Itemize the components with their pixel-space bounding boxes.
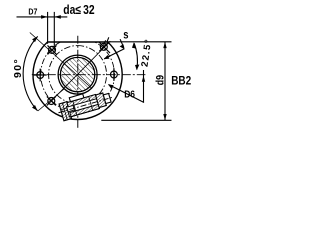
horizontal centerline [32,74,146,76]
vertical leg with up arrow at centerline [143,70,145,102]
flange outline: circle r44.6 with top flat at y=42 [33,42,122,120]
object inner step rects [67,105,76,117]
svg-text:d9: d9 [155,75,167,86]
svg-text:D6: D6 [124,88,135,100]
22.5deg arc top arrowhead [132,42,136,48]
svg-text:90°: 90° [12,58,24,78]
object bottom hatch band [70,104,100,116]
d9 dimension line [164,42,166,121]
s dimension tick 1 [104,40,106,45]
D6 leader arrowhead [108,84,114,89]
svg-text:BB2: BB2 [171,75,191,88]
leader to pilot circle [104,49,124,59]
22.5deg arc [134,43,137,70]
tilted shaft object (pump side view) [55,86,115,121]
bolt hole 45deg with X [99,42,110,53]
d9 top extension line [108,41,172,43]
steep extension line with arrow [120,39,124,47]
object left block [59,102,72,121]
svg-text:D7: D7 [28,7,38,17]
D7 extension line left [47,12,49,44]
22.5deg arc bottom arrowhead [135,65,139,71]
object key on top [69,94,84,102]
svg-text:s: s [123,29,128,42]
D7 arrow left [41,15,48,19]
pilot circle dash-dot r29 [49,46,107,104]
vertical centerline [77,36,79,130]
diagonal 45 centerline [56,41,110,96]
D7 dimension line [17,16,68,18]
bolt hole 135deg with X [48,45,57,54]
bolt hole left [34,69,47,82]
90deg dimension arc r55.5 [23,36,38,110]
shaft hatched disc r17.2 [60,57,94,91]
object body [67,95,99,117]
object right hatched block [96,93,107,108]
diagonal 225 centerline [38,89,64,111]
d9 bottom arrowhead [163,114,166,120]
bolt hole 225deg with X [47,97,56,106]
baseline [101,119,171,121]
d9 top arrowhead [163,42,166,48]
object top hatch band [67,95,97,107]
D7 arrow right [54,15,61,19]
diagonal 135 centerline [30,33,92,89]
svg-text:da≤ 32: da≤ 32 [63,4,94,17]
shaft ring r19.5 [58,55,97,94]
object centerline [58,97,112,112]
leader arrowhead [104,55,110,59]
object right tip [103,93,111,103]
bolt circle dash-dot r36.9 (clipped below flat) [41,38,115,112]
D6 leader line [109,85,145,103]
90deg arc bottom arrowhead [32,105,38,111]
90deg arc top arrowhead [32,36,38,42]
object dividers [73,96,93,114]
bolt hole right [111,68,118,81]
s dimension tick 2 [107,37,109,42]
D7 extension line right [53,12,55,51]
